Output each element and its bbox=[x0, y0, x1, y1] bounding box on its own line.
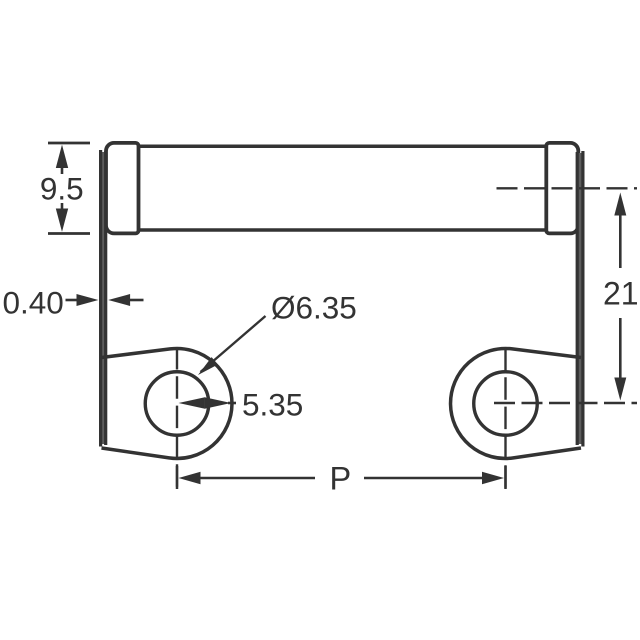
left mounting hole bbox=[145, 372, 209, 436]
dim Ø6.35 leader arrowhead bbox=[198, 357, 218, 375]
left end cap bbox=[106, 143, 139, 234]
svg-text:21: 21 bbox=[603, 276, 639, 312]
cylinder body top line bbox=[138, 145, 547, 149]
dim 0.40 right arrow bbox=[129, 299, 144, 302]
svg-text:5.35: 5.35 bbox=[242, 386, 303, 422]
right mounting lobe outline bbox=[451, 348, 581, 458]
left clip plate outer line bbox=[99, 150, 102, 447]
dim P left tick bbox=[176, 466, 179, 489]
cylinder body bottom line bbox=[138, 228, 547, 232]
svg-text:9.5: 9.5 bbox=[40, 171, 84, 207]
vertical centerline of left hole bbox=[176, 347, 178, 491]
dim 5.35 arrows (center to lobe edge) bbox=[179, 397, 205, 408]
right clip plate seam underlay bbox=[577, 153, 584, 444]
dim 21 bottom arrow bbox=[614, 378, 626, 401]
svg-text:0.40: 0.40 bbox=[3, 285, 64, 321]
right clip plate inner line bbox=[576, 152, 579, 445]
horizontal centerline of right hole bbox=[494, 402, 637, 404]
dim 9.5 top arrow bbox=[56, 145, 68, 168]
right clip plate outer line bbox=[581, 151, 584, 447]
right end cap bbox=[546, 143, 578, 234]
dim P left arrow bbox=[179, 472, 201, 485]
left clip plate seam underlay bbox=[100, 152, 107, 444]
dim 9.5 bottom extension line bbox=[48, 232, 90, 235]
dim P right arrow bbox=[482, 472, 504, 485]
vertical centerline of right hole bbox=[504, 348, 506, 491]
left mounting lobe outline bbox=[102, 348, 232, 458]
left clip plate inner line bbox=[104, 151, 107, 445]
svg-text:P: P bbox=[329, 461, 351, 497]
dim 9.5 top extension line bbox=[48, 142, 90, 145]
dim Ø6.35 leader line bbox=[201, 316, 266, 372]
svg-text:Ø6.35: Ø6.35 bbox=[271, 290, 357, 326]
dim 21 top arrow bbox=[614, 193, 626, 216]
dim 0.40 left arrow bbox=[66, 299, 81, 302]
horizontal centerline through caps bbox=[497, 187, 638, 189]
dim 9.5 bottom arrow bbox=[56, 209, 68, 232]
dim P right tick bbox=[504, 466, 507, 489]
right mounting hole bbox=[474, 372, 538, 436]
